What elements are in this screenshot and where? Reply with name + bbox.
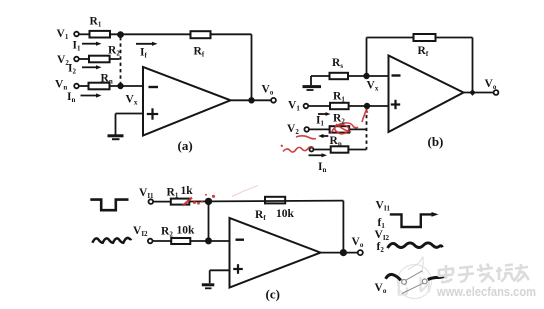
svg-text:10k: 10k: [177, 225, 196, 237]
svg-text:(b): (b): [428, 134, 444, 149]
svg-text:10k: 10k: [276, 208, 295, 220]
svg-text:www.elecfans.com: www.elecfans.com: [436, 284, 536, 299]
svg-text:(c): (c): [266, 287, 280, 302]
svg-text:(a): (a): [178, 138, 193, 153]
svg-text:1k: 1k: [181, 185, 194, 197]
